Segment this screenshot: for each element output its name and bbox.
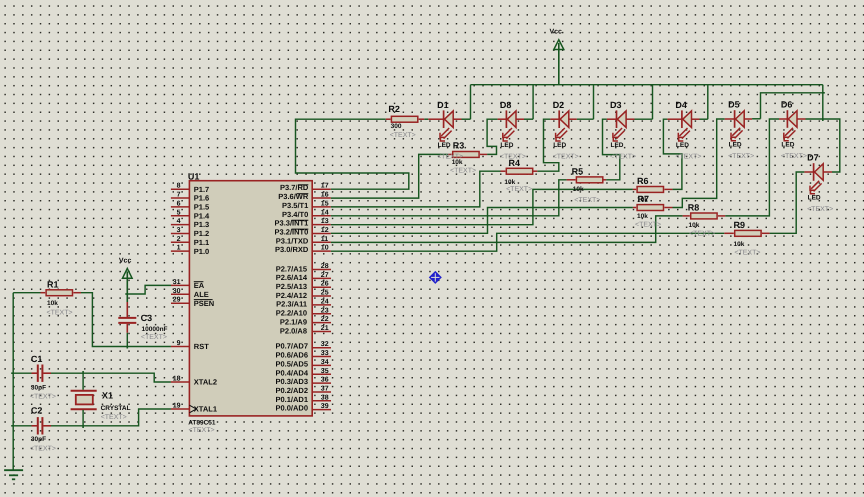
junction C3/RST — [126, 347, 128, 349]
junction VCC-bus — [558, 84, 560, 86]
pin 3 P1.2 stub — [171, 232, 190, 234]
pin 33 P0.6/AD6 stub — [312, 356, 331, 358]
svg-text:P2.6/A14: P2.6/A14 — [276, 273, 308, 282]
wire: D8 cathode to R3 — [487, 119, 498, 154]
svg-text:<TEXT>: <TEXT> — [553, 153, 579, 160]
svg-text:29: 29 — [173, 297, 181, 304]
pin 5 P1.4 stub — [171, 215, 190, 217]
wire: R8 to P3.1 pin11 — [331, 216, 683, 243]
lead: D2 anode — [568, 118, 577, 120]
svg-text:LED: LED — [808, 195, 821, 202]
svg-text:28: 28 — [321, 263, 329, 270]
svg-text:P3.1/TXD: P3.1/TXD — [276, 236, 309, 245]
svg-text:3: 3 — [177, 227, 181, 234]
svg-text:27: 27 — [321, 272, 329, 279]
wire: R4 to P3.5 pin15 — [331, 171, 501, 207]
svg-text:10k: 10k — [637, 213, 648, 220]
overline INT0 — [292, 228, 309, 230]
svg-text:<TEXT>: <TEXT> — [675, 153, 701, 160]
LED D7 — [810, 163, 823, 194]
svg-text:P2.7/A15: P2.7/A15 — [276, 264, 307, 273]
pin 9 RST stub — [171, 346, 190, 348]
svg-text:C3: C3 — [141, 313, 153, 323]
svg-text:17: 17 — [321, 183, 329, 190]
resistor R1 10k — [46, 290, 72, 296]
pin 32 P0.7/AD7 stub — [312, 347, 331, 349]
svg-text:<TEXT>: <TEXT> — [437, 153, 463, 160]
wire: bus to D4 anode — [707, 85, 709, 120]
svg-text:8: 8 — [177, 183, 181, 190]
wire: C2 row to XTAL1 — [13, 425, 31, 427]
svg-text:LED: LED — [676, 142, 689, 149]
svg-text:<TEXT>: <TEXT> — [781, 153, 807, 160]
svg-text:6: 6 — [177, 200, 181, 207]
resistor R6 10k — [637, 187, 663, 193]
pin 28 P2.7/A15 stub — [312, 269, 331, 271]
wire: bus to D1 anode — [470, 85, 472, 120]
resistor R2 300 — [391, 116, 417, 122]
pin 8 P1.7 stub — [171, 188, 190, 190]
wire: R7 to P3.2 pin12 — [331, 208, 633, 234]
pin 29 PSEN stub — [171, 302, 189, 304]
pin 17 P3.7/RD stub — [312, 188, 331, 190]
resistor R3 10k — [453, 152, 479, 158]
wire: D4 cathode to R6 — [663, 119, 682, 189]
ground symbol — [4, 470, 23, 479]
lead: D2 cathode — [550, 118, 559, 120]
svg-text:D6: D6 — [781, 100, 793, 110]
svg-text:<TEXT>: <TEXT> — [610, 153, 636, 160]
svg-text:R6: R6 — [637, 176, 649, 186]
LED D6 — [784, 110, 797, 141]
wire: branch to D5 anode — [761, 93, 823, 119]
lead: D3 cathode — [607, 118, 617, 120]
svg-text:LED: LED — [611, 142, 624, 149]
svg-text:13: 13 — [321, 218, 329, 225]
svg-text:RST: RST — [194, 342, 209, 351]
pin 25 P2.4/A12 stub — [312, 295, 331, 297]
pin 13 P3.3/INT1 stub — [312, 224, 331, 226]
svg-text:ALE: ALE — [194, 290, 209, 299]
svg-text:<TEXT>: <TEXT> — [689, 231, 715, 238]
resistor R7 10k — [637, 205, 663, 211]
lead: D4 cathode — [667, 118, 682, 120]
pin 36 P0.3/AD3 stub — [312, 382, 331, 384]
svg-text:10k: 10k — [689, 222, 700, 229]
svg-text:XTAL2: XTAL2 — [194, 378, 217, 387]
overline PSEN — [194, 299, 213, 301]
pin 37 P0.2/AD2 stub — [312, 391, 331, 393]
lead: R1 right — [73, 292, 81, 294]
pin 12 P3.2/INT0 stub — [312, 232, 331, 234]
lead: D8 anode — [515, 118, 524, 120]
svg-text:25: 25 — [321, 290, 329, 297]
wire: C1 row to X1 top — [82, 373, 84, 390]
pin 14 P3.4/T0 stub — [312, 215, 331, 217]
wire: bus to D3 anode — [652, 85, 654, 120]
clock symbol XTAL1 — [189, 405, 196, 413]
svg-text:<TEXT>: <TEXT> — [506, 186, 532, 193]
pin 2 P1.1 stub — [171, 241, 190, 243]
svg-text:<TEXT>: <TEXT> — [807, 206, 833, 213]
svg-text:10: 10 — [321, 245, 329, 252]
svg-text:LED: LED — [438, 142, 451, 149]
wire: R2 to P3.7 pin17 — [296, 119, 409, 189]
svg-text:P2.0/A8: P2.0/A8 — [280, 326, 307, 335]
svg-text:P0.7/AD7: P0.7/AD7 — [275, 342, 308, 351]
pin 23 P2.2/A10 stub — [312, 313, 331, 315]
wire: D1 anode lead — [453, 118, 462, 120]
pin 21 P2.0/A8 stub — [312, 330, 331, 332]
svg-text:<TEXT>: <TEXT> — [734, 249, 760, 256]
svg-text:EA: EA — [194, 281, 205, 290]
svg-text:Vcc: Vcc — [550, 28, 563, 35]
svg-text:35: 35 — [321, 368, 329, 375]
svg-text:P1.6: P1.6 — [194, 194, 209, 203]
svg-text:<TEXT>: <TEXT> — [574, 197, 600, 204]
wire: bus end down right — [822, 85, 824, 119]
wire: to D7 anode — [823, 119, 840, 172]
pin 35 P0.4/AD4 stub — [312, 373, 331, 375]
svg-text:18: 18 — [173, 376, 181, 383]
svg-text:R2: R2 — [388, 104, 400, 114]
pin 1 P1.0 stub — [171, 250, 190, 252]
svg-text:38: 38 — [321, 394, 329, 401]
pin 26 P2.5/A13 stub — [312, 286, 331, 288]
svg-text:R9: R9 — [734, 220, 746, 230]
svg-text:D8: D8 — [500, 100, 512, 110]
svg-text:2: 2 — [177, 236, 181, 243]
junction rail/C2 — [11, 425, 13, 427]
wire: to D6 anode — [806, 118, 823, 120]
resistor R5 10k — [576, 177, 602, 183]
svg-text:CRYSTAL: CRYSTAL — [101, 405, 131, 412]
svg-text:X1: X1 — [102, 391, 113, 401]
svg-text:30pF: 30pF — [31, 385, 46, 392]
svg-text:37: 37 — [321, 385, 329, 392]
pin 10 P3.0/RXD stub — [312, 250, 331, 252]
junction EA/VCC — [125, 293, 127, 295]
svg-text:P0.2/AD2: P0.2/AD2 — [275, 386, 308, 395]
svg-text:P0.6/AD6: P0.6/AD6 — [275, 351, 308, 360]
svg-text:R5: R5 — [572, 166, 584, 176]
LED D2 — [556, 110, 569, 141]
svg-text:R1: R1 — [47, 279, 59, 289]
svg-text:P2.5/A13: P2.5/A13 — [276, 282, 307, 291]
lead: D7 cathode — [804, 171, 813, 173]
lead: D5 cathode — [725, 118, 735, 120]
svg-text:P2.1/A9: P2.1/A9 — [280, 317, 307, 326]
LED D3 — [613, 110, 626, 141]
svg-text:<TEXT>: <TEXT> — [728, 153, 754, 160]
svg-text:30: 30 — [173, 288, 181, 295]
overline EA — [194, 281, 204, 283]
lead: D3 anode — [625, 118, 634, 120]
pin 7 P1.6 stub — [171, 197, 190, 199]
svg-text:10k: 10k — [573, 186, 584, 193]
svg-text:P2.2/A10: P2.2/A10 — [276, 309, 307, 318]
wire: D7 cathode to R9 — [770, 172, 805, 233]
pin 34 P0.5/AD5 stub — [312, 364, 331, 366]
svg-text:5: 5 — [177, 209, 181, 216]
LED D8 — [503, 110, 516, 141]
svg-text:10000nF: 10000nF — [142, 326, 168, 333]
resistor R9 10k — [735, 230, 761, 236]
svg-text:P2.3/A11: P2.3/A11 — [276, 300, 307, 309]
svg-text:<TEXT>: <TEXT> — [30, 394, 56, 401]
svg-text:<TEXT>: <TEXT> — [141, 334, 167, 341]
capacitor C3 — [118, 302, 136, 333]
pin 24 P2.3/A11 stub — [312, 304, 331, 306]
wire: C1 row to XTAL2 — [13, 372, 31, 374]
svg-text:14: 14 — [321, 209, 329, 216]
wire: R9 to P3.0 pin10 — [331, 233, 725, 251]
pin 30 ALE stub — [171, 293, 189, 295]
svg-text:C2: C2 — [31, 406, 43, 416]
svg-text:16: 16 — [321, 192, 329, 199]
lead: D7 anode — [822, 171, 832, 173]
svg-text:15: 15 — [321, 200, 329, 207]
lead: D5 anode — [743, 118, 752, 120]
svg-text:D2: D2 — [553, 100, 565, 110]
wire: ground rail — [12, 293, 14, 471]
svg-text:P2.4/A12: P2.4/A12 — [276, 291, 307, 300]
svg-text:P3.5/T1: P3.5/T1 — [282, 201, 308, 210]
svg-text:P3.4/T0: P3.4/T0 — [282, 210, 308, 219]
wire: EA to VCC — [127, 285, 171, 294]
svg-text:22: 22 — [321, 316, 329, 323]
svg-text:12: 12 — [321, 227, 329, 234]
pin 6 P1.5 stub — [171, 206, 190, 208]
svg-text:P0.5/AD5: P0.5/AD5 — [275, 359, 308, 368]
pin 16 P3.6/WR stub — [312, 197, 331, 199]
power VCC (left) — [123, 268, 133, 302]
power VCC (top) — [554, 40, 564, 85]
wire: R6 to P3.3 pin13 — [331, 189, 633, 224]
svg-text:9: 9 — [177, 340, 181, 347]
svg-text:26: 26 — [321, 281, 329, 288]
resistor R8 10k — [691, 213, 717, 219]
svg-text:P1.1: P1.1 — [194, 238, 209, 247]
lead: D6 anode — [796, 118, 805, 120]
junction rail/C1 — [11, 372, 13, 374]
capacitor C2 30pF — [32, 417, 52, 434]
svg-text:33: 33 — [321, 350, 329, 357]
svg-text:36: 36 — [321, 377, 329, 384]
pin 31 EA stub — [171, 284, 189, 286]
pin 18 XTAL2 stub — [171, 381, 190, 383]
overline RD — [298, 184, 308, 186]
wire: X1 bottom to C2 row — [82, 410, 84, 426]
svg-text:<TEXT>: <TEXT> — [30, 445, 56, 452]
svg-text:R8: R8 — [688, 203, 700, 213]
pin 38 P0.1/AD1 stub — [312, 400, 331, 402]
svg-text:<TEXT>: <TEXT> — [450, 168, 476, 175]
wire: bus to D8 anode — [532, 85, 534, 120]
svg-text:P0.0/AD0: P0.0/AD0 — [275, 404, 308, 413]
junction bus/D5 branch — [823, 92, 825, 94]
pin 22 P2.1/A9 stub — [312, 322, 331, 324]
svg-text:P1.2: P1.2 — [194, 229, 209, 238]
svg-text:LED: LED — [729, 142, 742, 149]
svg-text:<TEXT>: <TEXT> — [500, 153, 526, 160]
MCU U1 AT89C51 body — [189, 181, 312, 416]
lead: D4 anode — [691, 118, 700, 120]
svg-text:P0.4/AD4: P0.4/AD4 — [275, 368, 308, 377]
wire: D5 cathode to R7 — [673, 119, 725, 208]
LED D1 — [440, 110, 453, 141]
svg-text:P1.5: P1.5 — [194, 203, 209, 212]
wire: rail to R1 — [13, 292, 40, 294]
svg-text:24: 24 — [321, 298, 329, 305]
wire: C3 to RST — [126, 333, 128, 347]
svg-text:19: 19 — [173, 403, 181, 410]
svg-text:LED: LED — [553, 142, 566, 149]
pin 11 P3.1/TXD stub — [312, 241, 331, 243]
svg-text:<TEXT>: <TEXT> — [390, 132, 416, 139]
svg-text:<TEXT>: <TEXT> — [635, 222, 661, 229]
capacitor C1 30pF — [32, 365, 52, 382]
svg-text:Vcc: Vcc — [119, 258, 132, 265]
svg-text:<TEXT>: <TEXT> — [101, 414, 127, 421]
lead: D6 cathode — [779, 118, 787, 120]
svg-text:<TEXT>: <TEXT> — [47, 310, 73, 317]
svg-text:4: 4 — [177, 218, 181, 225]
wire: R2 to D1 — [419, 118, 425, 120]
LED D4 — [678, 110, 691, 141]
wire: D6 cathode to R8 — [725, 119, 779, 216]
svg-text:P1.7: P1.7 — [194, 185, 209, 194]
svg-text:D7: D7 — [807, 153, 819, 163]
svg-text:P1.4: P1.4 — [194, 211, 210, 220]
svg-text:P0.3/AD3: P0.3/AD3 — [275, 377, 308, 386]
svg-text:R3: R3 — [453, 140, 465, 150]
svg-text:10k: 10k — [47, 300, 58, 307]
LED D5 — [731, 110, 744, 141]
svg-text:10k: 10k — [734, 241, 745, 248]
svg-text:P1.3: P1.3 — [194, 220, 209, 229]
origin marker — [429, 271, 442, 284]
svg-text:34: 34 — [321, 359, 329, 366]
svg-text:PSEN: PSEN — [194, 299, 214, 308]
pin 39 P0.0/AD0 stub — [312, 409, 331, 411]
svg-text:D3: D3 — [610, 100, 622, 110]
overline INT1 — [292, 219, 309, 221]
svg-text:32: 32 — [321, 341, 329, 348]
svg-text:P3.0/RXD: P3.0/RXD — [275, 245, 309, 254]
svg-text:AT89C51: AT89C51 — [188, 419, 216, 426]
svg-text:D1: D1 — [437, 100, 449, 110]
pin 4 P1.3 stub — [171, 224, 190, 226]
svg-text:23: 23 — [321, 307, 329, 314]
svg-text:39: 39 — [321, 403, 329, 410]
wire: R1 to RST — [81, 293, 171, 347]
svg-text:D5: D5 — [728, 100, 740, 110]
wire: R3 to P3.6 pin16 — [331, 154, 448, 198]
svg-text:R7: R7 — [638, 194, 650, 204]
svg-text:1: 1 — [177, 245, 181, 252]
pin 27 P2.6/A14 stub — [312, 277, 331, 279]
svg-text:31: 31 — [173, 279, 181, 286]
svg-text:7: 7 — [177, 192, 181, 199]
wire: D2 cathode to R4 — [537, 119, 559, 171]
svg-text:LED: LED — [781, 142, 794, 149]
svg-text:30pF: 30pF — [31, 436, 46, 443]
svg-text:300: 300 — [391, 123, 402, 130]
svg-text:11: 11 — [321, 236, 329, 243]
svg-text:<TEXT>: <TEXT> — [189, 427, 215, 434]
junction X1 bottom — [82, 426, 84, 428]
wire: R5 to P3.4 pin14 — [331, 180, 567, 216]
svg-text:LED: LED — [500, 142, 513, 149]
svg-text:P1.0: P1.0 — [194, 247, 209, 256]
wire: D3 cathode to R5 — [603, 119, 620, 180]
svg-text:XTAL1: XTAL1 — [194, 405, 217, 414]
overline WR — [297, 193, 309, 195]
lead: D8 cathode — [498, 118, 507, 120]
junction D6/D7 branch — [822, 119, 824, 121]
svg-text:21: 21 — [321, 325, 329, 332]
resistor R4 10k — [506, 168, 532, 174]
svg-text:U1: U1 — [188, 171, 200, 181]
wire: VCC top bus — [471, 84, 823, 86]
wire: bus to D2 anode — [593, 85, 595, 120]
junction X1 top — [82, 371, 84, 373]
pin 15 P3.5/T1 stub — [312, 206, 331, 208]
svg-text:D4: D4 — [675, 100, 687, 110]
pin 19 XTAL1 stub — [171, 408, 190, 410]
svg-text:P0.1/AD1: P0.1/AD1 — [275, 395, 308, 404]
svg-text:C1: C1 — [31, 354, 43, 364]
svg-text:10k: 10k — [504, 179, 515, 186]
